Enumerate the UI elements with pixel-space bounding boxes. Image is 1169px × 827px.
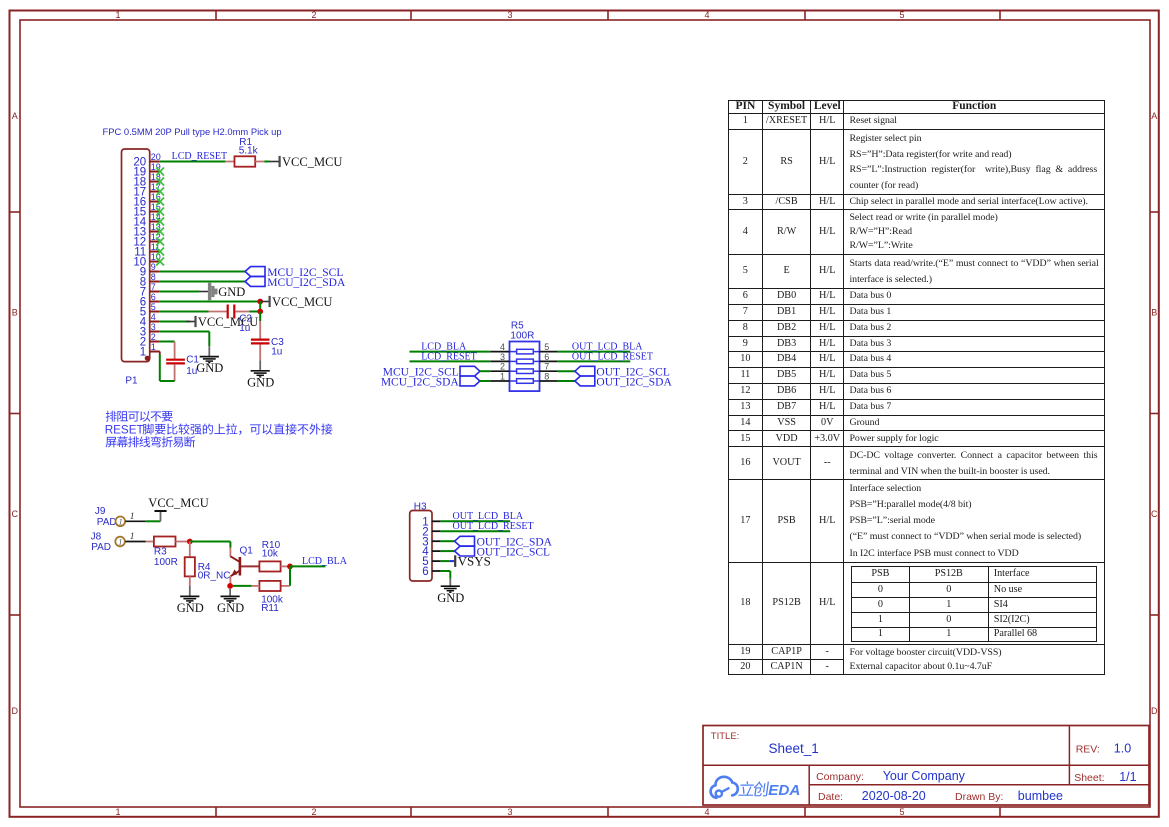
resistor R3 xyxy=(146,537,190,547)
svg-text:1.0: 1.0 xyxy=(1114,742,1131,756)
resistor R4 xyxy=(185,542,195,587)
wire H3.6 to GND xyxy=(440,570,450,572)
svg-text:4: 4 xyxy=(704,10,709,20)
svg-text:VCC_MCU: VCC_MCU xyxy=(282,155,342,169)
svg-text:A: A xyxy=(1151,111,1157,121)
wire junction to Q1 xyxy=(190,541,231,543)
svg-text:2: 2 xyxy=(311,807,316,817)
wire pin2 to C1 xyxy=(160,341,175,343)
capacitor C3 xyxy=(251,321,270,360)
svg-text:9: 9 xyxy=(151,262,156,272)
wire R5.8 xyxy=(558,380,575,382)
wire R11 to emitter node xyxy=(233,585,252,587)
wire R5.5 OUT_LCD_BLA xyxy=(558,351,631,353)
svg-text:6: 6 xyxy=(151,292,156,302)
svg-text:1u: 1u xyxy=(271,346,282,357)
wire pin5 to C2 xyxy=(160,311,209,313)
svg-text:7: 7 xyxy=(151,282,156,292)
svg-text:GND: GND xyxy=(247,375,274,389)
logo LCEDA xyxy=(711,777,801,799)
svg-text:R11: R11 xyxy=(261,603,279,614)
annotation chinese note xyxy=(105,411,333,448)
wire H3.2 OUT_LCD_RESET xyxy=(440,530,510,532)
svg-text:1: 1 xyxy=(130,512,135,522)
svg-text:P1: P1 xyxy=(125,376,138,387)
wire pin3 to GND xyxy=(160,331,210,333)
svg-text:100R: 100R xyxy=(510,330,534,341)
wire LCD_RESET to R5.3 xyxy=(410,360,491,362)
svg-text:1: 1 xyxy=(115,807,120,817)
svg-text:Sheet_1: Sheet_1 xyxy=(769,741,819,756)
P1 pin-1 marker dot xyxy=(145,356,150,361)
svg-text:TITLE:: TITLE: xyxy=(711,731,740,742)
svg-text:RESET: RESET xyxy=(105,424,144,437)
svg-text:10k: 10k xyxy=(262,548,279,559)
svg-text:2020-08-20: 2020-08-20 xyxy=(862,789,926,803)
svg-text:Date:: Date: xyxy=(818,791,843,803)
junction node Q1 emitter xyxy=(227,583,233,589)
svg-text:GND: GND xyxy=(177,601,204,615)
resistor network R5 body xyxy=(510,342,540,392)
wire R5.2 xyxy=(480,370,490,372)
power symbol VCC_MCU (J9) xyxy=(148,496,208,522)
ground GND (pin3) xyxy=(196,346,223,375)
wire C2 to junction xyxy=(250,311,261,313)
svg-text:R3: R3 xyxy=(154,546,167,557)
pin J9.1 xyxy=(125,520,146,522)
wire pin1 down xyxy=(159,352,161,355)
ground symbol (pin7, rotated) xyxy=(208,283,245,300)
svg-text:J9: J9 xyxy=(95,506,106,517)
net port OUT_I2C_SCL (H3.4) xyxy=(455,546,475,556)
svg-text:5.1k: 5.1k xyxy=(239,146,259,157)
svg-text:2: 2 xyxy=(311,10,316,20)
svg-text:OUT_LCD_RESET: OUT_LCD_RESET xyxy=(453,521,534,532)
svg-text:1: 1 xyxy=(151,342,156,352)
junction node pin6/VCC xyxy=(257,299,263,305)
resistor R11 xyxy=(251,581,290,591)
wire J9 to VCC xyxy=(146,520,161,522)
capacitor C1 xyxy=(166,342,185,382)
wire H3.5 to VSYS xyxy=(440,560,450,562)
svg-text:OUT_I2C_SDA: OUT_I2C_SDA xyxy=(596,376,672,388)
wire R5.1 xyxy=(480,380,490,382)
resistor R1 xyxy=(225,156,264,166)
svg-text:1: 1 xyxy=(118,516,122,526)
svg-text:3: 3 xyxy=(507,807,512,817)
svg-text:0R_NC: 0R_NC xyxy=(198,570,231,581)
net port MCU_I2C_SCL (R5.2) xyxy=(460,366,480,376)
wire LCD_BLA to R5.4 xyxy=(410,351,491,353)
svg-text:20: 20 xyxy=(133,157,146,169)
svg-text:bumbee: bumbee xyxy=(1018,789,1063,803)
transistor Q1 xyxy=(230,548,240,584)
wire pin7 to GND xyxy=(160,291,199,293)
wire LCD_BLA out xyxy=(290,565,325,567)
svg-text:20: 20 xyxy=(151,152,161,162)
junction node R3/R4/Q1 xyxy=(187,539,193,545)
svg-text:MCU_I2C_SDA: MCU_I2C_SDA xyxy=(267,277,346,289)
svg-text:VSYS: VSYS xyxy=(458,554,491,569)
connector H3 pins 1-6 with pin numbers xyxy=(422,516,440,578)
svg-text:7: 7 xyxy=(544,362,549,372)
svg-text:GND: GND xyxy=(437,591,464,605)
svg-text:GND: GND xyxy=(218,285,245,299)
net port MCU_I2C_SDA (R5.1) xyxy=(460,376,480,386)
net port MCU_I2C_SDA xyxy=(245,277,265,287)
connector P1 pins 1-20 with pin numbers xyxy=(133,152,160,359)
wire C1 bottom to pin1 xyxy=(160,380,175,382)
wire junction to C3 xyxy=(259,312,261,322)
svg-text:4: 4 xyxy=(500,342,505,352)
net port OUT_I2C_SDA (H3.3) xyxy=(455,536,475,546)
wire H3.3 xyxy=(440,540,454,542)
net port MCU_I2C_SCL xyxy=(245,267,265,277)
connector P1 body xyxy=(122,149,150,362)
svg-text:LCD_RESET: LCD_RESET xyxy=(421,351,477,362)
svg-text:D: D xyxy=(11,706,18,716)
wire R5.6 OUT_LCD_RESET xyxy=(558,360,631,362)
no-connect X marks pins 10-19 xyxy=(156,168,164,266)
wire pin8 MCU_I2C_SDA xyxy=(160,281,245,283)
svg-text:3: 3 xyxy=(500,352,505,362)
wire pin4 to VCC flag xyxy=(160,321,190,323)
svg-text:1u: 1u xyxy=(186,366,197,377)
wire junction pin6 to pin5 node xyxy=(259,302,261,312)
wire junction down to R11 xyxy=(289,566,291,586)
svg-text:C: C xyxy=(11,509,18,519)
pin J8.1 xyxy=(125,541,146,543)
pad J9 xyxy=(116,517,126,527)
wire H3.1 OUT_LCD_BLA xyxy=(440,520,510,522)
svg-text:1/1: 1/1 xyxy=(1119,770,1136,784)
svg-text:6: 6 xyxy=(422,566,428,578)
svg-text:C: C xyxy=(1151,509,1158,519)
svg-text:B: B xyxy=(12,308,18,318)
svg-text:VCC_MCU: VCC_MCU xyxy=(272,295,332,309)
svg-text:2: 2 xyxy=(500,362,505,372)
svg-text:C1: C1 xyxy=(186,355,199,366)
svg-text:5: 5 xyxy=(151,302,156,312)
svg-text:OUT_LCD_RESET: OUT_LCD_RESET xyxy=(572,351,653,362)
title block frame xyxy=(703,726,1149,806)
svg-text:5: 5 xyxy=(544,342,549,352)
svg-text:D: D xyxy=(1151,706,1158,716)
svg-text:FPC 0.5MM 20P Pull type H2.0mm: FPC 0.5MM 20P Pull type H2.0mm Pick up xyxy=(103,126,282,137)
svg-text:PAD: PAD xyxy=(97,517,117,528)
svg-text:Sheet:: Sheet: xyxy=(1074,772,1104,784)
svg-text:6: 6 xyxy=(544,352,549,362)
svg-text:Your Company: Your Company xyxy=(883,769,966,783)
net port OUT_I2C_SCL (R5.7) xyxy=(575,366,595,376)
svg-text:4: 4 xyxy=(151,312,156,322)
svg-text:1: 1 xyxy=(500,371,505,381)
ground GND (C3) xyxy=(247,360,274,389)
svg-text:2: 2 xyxy=(151,332,156,342)
svg-text:EDA: EDA xyxy=(768,782,800,799)
wire pin20 LCD_RESET xyxy=(160,161,226,163)
wire Q1 base to R10 xyxy=(241,565,260,567)
svg-text:3: 3 xyxy=(151,322,156,332)
svg-text:LCD_BLA: LCD_BLA xyxy=(302,556,348,567)
svg-text:LCD_RESET: LCD_RESET xyxy=(172,151,228,162)
wire R5.7 xyxy=(558,370,575,372)
wire R1 to VCC flag xyxy=(264,161,270,163)
svg-text:3: 3 xyxy=(507,10,512,20)
wire pin9 MCU_I2C_SCL xyxy=(160,271,245,273)
capacitor C2 xyxy=(209,305,250,319)
svg-text:J8: J8 xyxy=(91,532,102,543)
svg-text:1: 1 xyxy=(115,10,120,20)
svg-text:Company:: Company: xyxy=(816,771,864,783)
svg-text:100R: 100R xyxy=(154,557,178,568)
svg-text:GND: GND xyxy=(217,601,244,615)
svg-text:8: 8 xyxy=(544,371,549,381)
svg-text:REV:: REV: xyxy=(1076,744,1100,756)
connector H3 body xyxy=(410,511,432,582)
junction node R10/R11/LCD_BLA xyxy=(287,564,293,570)
ground GND (Q1) xyxy=(217,589,244,615)
ground GND (H3) xyxy=(437,579,464,605)
power flag VCC_MCU (pin20) xyxy=(270,155,342,169)
svg-text:5: 5 xyxy=(899,10,904,20)
svg-text:Q1: Q1 xyxy=(240,546,254,557)
power flag VSYS xyxy=(454,555,456,567)
svg-text:5: 5 xyxy=(899,807,904,817)
power flag VCC_MCU (pin6) xyxy=(260,295,332,309)
svg-text:VCC_MCU: VCC_MCU xyxy=(198,315,258,329)
svg-text:1: 1 xyxy=(118,537,122,547)
svg-text:PAD: PAD xyxy=(91,542,111,553)
svg-text:8: 8 xyxy=(151,272,156,282)
svg-text:Drawn By:: Drawn By: xyxy=(955,791,1003,803)
junction node pin5/C3 xyxy=(257,309,263,315)
svg-text:4: 4 xyxy=(704,807,709,817)
svg-text:B: B xyxy=(1151,308,1157,318)
ground GND (R4) xyxy=(177,586,204,615)
svg-text:MCU_I2C_SDA: MCU_I2C_SDA xyxy=(381,376,460,388)
pad J8 xyxy=(115,537,125,547)
wire H3.4 xyxy=(440,550,454,552)
svg-text:A: A xyxy=(12,111,18,121)
resistor network R5 pins and elements xyxy=(490,342,558,383)
net port OUT_I2C_SDA (R5.8) xyxy=(575,376,595,386)
svg-text:1: 1 xyxy=(130,532,135,542)
svg-text:GND: GND xyxy=(196,361,223,375)
resistor R10 xyxy=(259,561,290,571)
wire pin6 to junction xyxy=(160,301,260,303)
svg-text:VCC_MCU: VCC_MCU xyxy=(148,496,208,510)
power flag VCC_MCU (pin4) xyxy=(186,315,258,329)
